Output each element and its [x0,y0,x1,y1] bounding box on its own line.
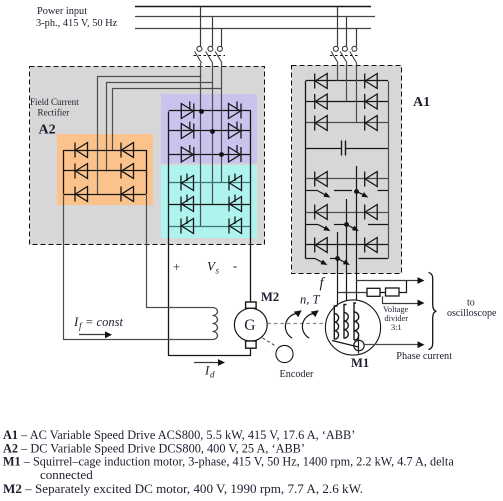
phase wire 3 cont to cyan row1 [221,155,223,184]
R2 to top line [399,281,407,293]
svg-text:3:1: 3:1 [391,323,402,332]
inverter diode row1 [306,178,389,180]
rotation arc 2 [302,313,314,338]
stator coil 1 [334,306,338,340]
diode D7 [315,74,328,89]
output wire phase B [346,199,348,273]
rotation arc 1 [285,313,297,338]
encoder dashed link [263,338,276,346]
orange highlight [57,134,153,205]
IGBT row2 left [306,224,319,226]
field tap 2 [107,83,213,172]
switch S2a [331,46,338,63]
cyan bridge row3 [169,226,251,228]
Id arrow [194,362,219,364]
svg-text:M2: M2 [261,290,279,304]
box A2 fill [30,67,265,245]
svg-text:Phase current: Phase current [396,351,452,362]
node dot i3 [335,256,340,261]
A1 rectifier row2 [306,101,389,103]
svg-text:n, T: n, T [300,293,321,307]
node dot p2 [210,129,215,134]
svg-text:-: - [233,259,237,273]
IGBT row3 right [338,259,350,266]
IGBT row1 right [356,191,368,198]
output wire phase A [337,232,339,273]
phase wire 1 cont to cyan row3 [200,111,202,227]
diode D8 [315,94,328,109]
cyan bridge row1 [169,182,251,184]
armature right rail [250,111,252,302]
A1 feed wire 2 [346,63,348,102]
G machine bottom brush [246,341,257,348]
switch S1b [206,46,213,63]
encoder circle [276,345,293,362]
box A1 fill [292,66,402,274]
svg-text:divider: divider [385,314,409,323]
armature left rail [169,112,251,356]
power bus line 1 [135,6,371,8]
curly brace [429,273,437,350]
orange bridge row2 [64,170,146,172]
cyan bridge row2 [169,204,251,206]
orange bridge row1 [64,150,146,152]
wire drop L3 [221,28,223,47]
node dot p3 [219,152,224,157]
field wire right [147,195,213,308]
svg-text:Encoder: Encoder [280,369,315,380]
diode D2 [75,164,88,179]
scope line top [356,280,418,282]
diode D3 [75,187,88,202]
current sensor lead [358,337,360,354]
switch S1c [215,46,222,63]
capacitor C1 [306,148,342,150]
svg-text:A2 – DC Variable Speed Drive D: A2 – DC Variable Speed Drive DCS800, 400… [3,441,305,455]
wire drop L2 [212,17,214,47]
power bus line 2 [135,16,375,18]
node dot i2 [344,222,349,227]
diode D11 [365,94,378,109]
A1 feed wire 3 [356,63,358,123]
phase wire 3 into A2 [221,63,223,155]
wire drop R2 [346,17,348,47]
svg-text:M2 – Separately excited DC mot: M2 – Separately excited DC motor, 400 V,… [3,481,363,496]
switch S1a [195,46,202,63]
svg-text:oscilloscope: oscilloscope [447,308,497,319]
svg-text:A1: A1 [413,95,430,110]
motor feed wire C [356,273,358,303]
node dot p1 [199,109,204,114]
purple highlight [161,94,257,164]
IGBT row1 left [306,190,319,192]
power bus line 3 [135,28,371,30]
svg-text:s: s [216,266,220,276]
svg-text:A1 – AC Variable Speed Drive A: A1 – AC Variable Speed Drive ACS800, 5.5… [3,428,355,442]
svg-text:A2: A2 [39,122,56,137]
field coil [213,308,218,340]
diode D9 [315,116,328,131]
svg-text:= const: = const [85,315,123,329]
cyan highlight [161,165,257,238]
thyristor T12 [229,217,242,234]
gang link left [194,55,226,57]
diode D14 [315,205,328,220]
diode D16 [365,172,378,187]
phase wire 2 cont to cyan row2 [212,131,214,204]
diode D6 [121,187,134,202]
diode D1 [75,143,88,158]
IGBT row3 left [306,258,316,260]
If arrow [79,334,106,336]
thyristor T2 [181,122,194,139]
field tap 3 [113,89,222,151]
thyristor T1 [181,102,194,119]
motor feed wire B [346,273,348,305]
stator coil 2 [344,305,348,339]
diode D5 [121,164,134,179]
thyristor T6 [229,145,242,162]
field tap 1 [98,77,202,195]
G machine circle [234,308,267,341]
G machine top brush [246,302,257,308]
thyristor T8 [181,195,194,212]
svg-text:connected: connected [40,467,93,482]
thyristor T11 [229,195,242,212]
wire drop L1 [200,7,202,47]
current sensor circle [354,340,364,350]
phase current line [364,344,418,346]
diode D4 [121,143,134,158]
M1 circle [325,300,380,355]
diode D18 [365,238,378,253]
inverter diode row2 [306,212,389,214]
thyristor T10 [229,174,242,191]
purple bridge row2 [169,130,251,132]
field wire left [64,195,213,340]
wire drop R3 [356,28,358,47]
IGBT row2 right [347,225,359,232]
svg-text:to: to [467,298,475,309]
divider tap [383,296,419,303]
star point link [332,341,359,348]
thyristor T3 [181,145,194,162]
resistor R1 [367,288,380,296]
thyristor T5 [229,122,242,139]
diode D10 [365,74,378,89]
shaft dashed line [267,323,325,325]
thyristor T7 [181,174,194,191]
purple bridge row1 [169,110,251,112]
svg-text:Voltage: Voltage [383,305,409,314]
motor feed wire A [337,273,339,306]
svg-text:Power input: Power input [37,6,87,17]
divider input line [338,292,368,294]
A1 feed wire 1 [337,63,339,81]
inverter diode row3 [306,244,389,246]
orange right rail [146,150,148,194]
A1 rectifier row3 [306,122,389,124]
gang link right [330,55,360,57]
svg-text:Field Current: Field Current [30,97,79,107]
orange left rail [63,150,65,194]
wire drop R1 [337,7,339,47]
purple bridge row3 [169,154,251,156]
orange bridge row3 [64,194,146,196]
svg-text:M1: M1 [351,356,369,370]
resistor R2 [386,288,400,296]
A1 left rail [305,81,307,259]
diode D15 [315,238,328,253]
thyristor T9 [181,217,194,234]
A1 rectifier row1 [306,80,389,82]
node dot i1 [354,189,359,194]
phase wire 2 into A2 [212,63,214,131]
svg-text:G: G [244,317,255,334]
stator coil 3 [354,303,359,340]
R1-R2 link [380,292,386,294]
svg-text:Rectifier: Rectifier [38,107,70,117]
diode D13 [315,172,328,187]
diode D17 [365,205,378,220]
output wire phase C [356,166,358,273]
thyristor T4 [229,102,242,119]
A1 right rail [388,81,390,259]
phase wire 1 into A2 [200,63,202,111]
svg-text:+: + [173,260,180,274]
svg-text:3-ph., 415 V, 50 Hz: 3-ph., 415 V, 50 Hz [36,18,118,29]
switch S2b [340,46,347,63]
svg-text:d: d [210,370,215,380]
legend [3,428,454,496]
diode D12 [365,116,378,131]
switch S2c [350,46,357,63]
